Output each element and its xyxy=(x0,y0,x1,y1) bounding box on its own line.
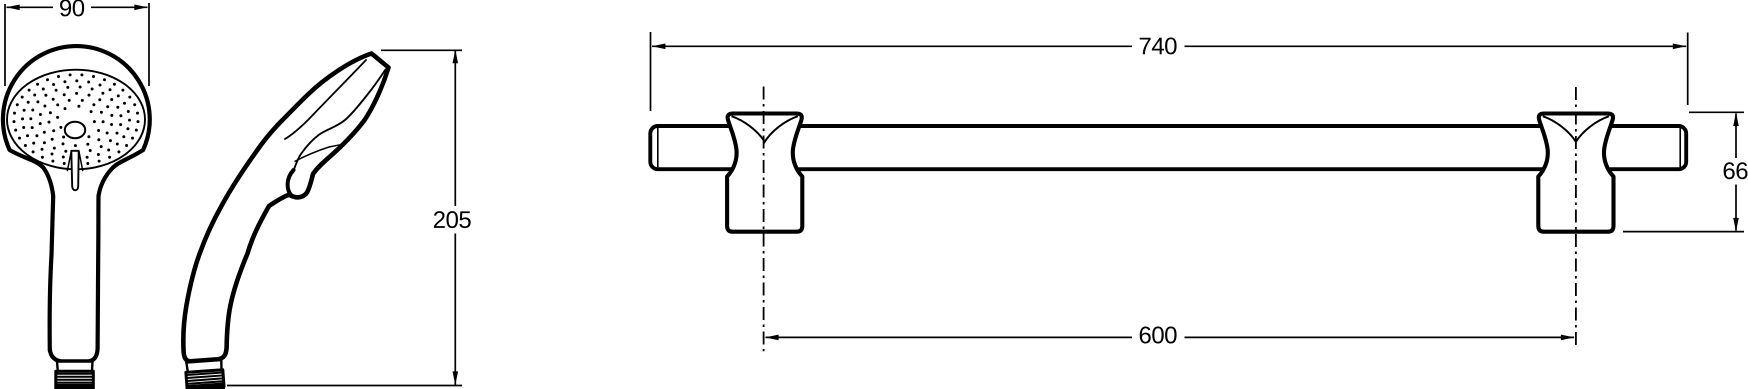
dimension 600: dimension line xyxy=(766,336,1575,338)
dimension 66: dimension line xyxy=(1735,114,1737,231)
dimension 90: extension lines xyxy=(5,3,149,86)
bar right end cap face line xyxy=(1679,128,1681,167)
dimension 205: dimension line xyxy=(454,50,456,386)
left bracket saddle curve xyxy=(732,116,798,142)
diverter lever shaft xyxy=(71,151,78,190)
dimension 205: extension lines xyxy=(227,50,462,385)
right bracket body xyxy=(1538,114,1613,232)
right bracket saddle curve xyxy=(1543,116,1609,142)
left bracket body xyxy=(727,114,802,232)
side view face parting line (bezel) xyxy=(285,60,366,139)
diverter lever wedge lines xyxy=(67,152,83,172)
dimension 90: dimension line xyxy=(7,6,148,8)
hand shower front view: outline (head circle, neck, handle) xyxy=(3,46,150,361)
centre cap ellipse xyxy=(65,122,85,138)
dimension 66: extension lines xyxy=(1623,112,1744,231)
wall bar tube xyxy=(650,126,1686,169)
dimension 740: dimension line xyxy=(652,45,1686,47)
spray nozzle dots xyxy=(13,73,140,165)
spray face ellipse xyxy=(7,70,145,170)
side connector group (tilted) xyxy=(185,360,225,389)
right bracket centreline xyxy=(1575,87,1577,348)
hand shower side view: outline xyxy=(183,54,388,362)
dimension 740: extension lines xyxy=(651,32,1688,111)
front connector collar xyxy=(57,362,93,372)
side view lever upper thin line xyxy=(295,145,341,162)
front threaded fitting xyxy=(56,371,94,389)
side view spray-face inner edge line xyxy=(294,69,387,171)
bar left end cap face line xyxy=(657,128,659,167)
side view diverter lever hook (left edge) xyxy=(288,170,294,196)
left bracket centreline xyxy=(763,87,765,352)
